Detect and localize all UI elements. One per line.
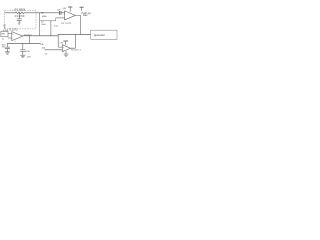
microphone element [1,31,8,36]
svg-text:+9V: +9V [62,8,66,10]
resistor R2 label [41,12,48,18]
svg-text:+: + [12,34,14,36]
op-amp U3 output label [24,35,33,37]
capacitor C3 label [57,10,61,12]
label push-up bias [82,12,92,17]
power rail VCC3 [63,40,68,42]
wire mic to U3 [8,34,12,39]
op-amp U3 [12,32,23,41]
wire U3 output [23,35,59,37]
svg-text:MIC: MIC [2,34,6,36]
svg-text:+: + [63,47,65,49]
microphone MIC labels [3,28,9,32]
svg-text:TLC272: TLC272 [9,29,18,32]
svg-text:generator: generator [94,34,105,37]
svg-text:2: 2 [80,50,82,52]
svg-text:+9V: +9V [59,42,63,44]
wire branch to U2 input [58,34,62,47]
sensor equivalent dashed box [5,10,36,29]
bias rail [7,42,40,44]
op-amp U3 label [9,29,18,32]
svg-text:47uF: 47uF [25,51,31,53]
wire jog [55,18,57,21]
capacitor C2 label [41,21,47,26]
capacitor C5 [20,43,25,55]
svg-text:C1 47nF: C1 47nF [15,14,25,18]
svg-text:1u: 1u [2,38,4,40]
svg-text:1/2 TL072: 1/2 TL072 [61,23,72,25]
resistor R5 label [40,44,48,56]
op-amp U1 [65,11,76,20]
wire inverting input [56,17,65,19]
capacitor C4 label [2,44,6,48]
power rail VCC1 [68,6,72,8]
svg-text:680k: 680k [42,16,48,18]
capacitor C1 [17,13,22,23]
wire sensor output to amp input [36,12,65,14]
ground (under U2) [64,51,69,56]
svg-text:C6: C6 [45,54,49,56]
svg-text:5: 5 [15,41,16,43]
wire U2 inverting input [45,49,63,51]
resistor R1 [5,12,36,14]
svg-text:TLC272: TLC272 [71,49,80,51]
node IN label [3,25,6,27]
wire divider to rail [28,36,30,44]
svg-text:1uF: 1uF [57,10,61,12]
ground (inside box) [18,23,21,24]
wire feedback row [40,20,56,22]
wire bias branch vertical [39,13,41,36]
op-amp U2 [62,45,70,52]
svg-text:10k: 10k [42,48,46,50]
wire U2 output [70,34,75,48]
ground [5,52,10,54]
generator box [91,30,117,39]
svg-text:IC1a: IC1a [54,25,59,27]
svg-text:16V: 16V [27,56,31,58]
capacitor C3 (input coupling) [59,11,61,15]
op-amp U1 label [61,23,72,25]
svg-text:10k: 10k [40,44,44,46]
wire U1 output [75,15,80,34]
svg-text:−: − [65,19,67,21]
svg-text:−: − [63,50,65,52]
wire to generator [58,33,90,35]
svg-text:10nF: 10nF [41,24,47,26]
resistor R1 label [15,8,26,12]
svg-text:+: + [64,14,66,16]
capacitor C4 [5,43,10,51]
op-amp U1 pin label [54,25,59,27]
op-amp U2 label [71,49,82,51]
capacitor C1 label [15,14,25,18]
ground [20,55,25,57]
capacitor C5 label [25,51,31,59]
power rail VCC2 [80,6,84,8]
wire feedback vertical [50,21,52,36]
svg-text:R1 680k: R1 680k [15,8,26,12]
